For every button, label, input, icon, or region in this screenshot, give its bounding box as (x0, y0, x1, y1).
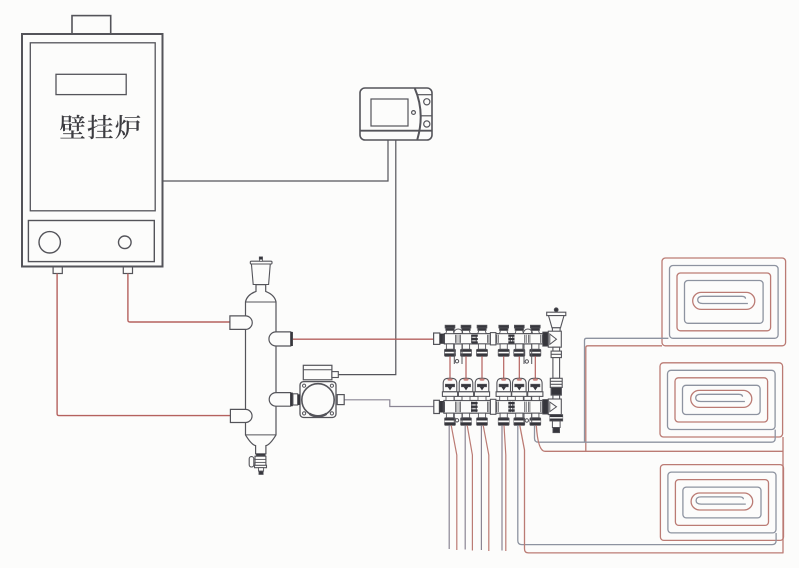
manifold supply coupler sleeve (490, 333, 496, 345)
separator air vent (top) (250, 257, 272, 285)
boiler knob (small circle) (119, 236, 132, 249)
coil 3 gray ring 1 (668, 472, 776, 533)
thermostat body (360, 88, 432, 140)
manifold supply valve 2 (459, 325, 473, 356)
bottom gray line manifold to coil 3 (518, 425, 776, 544)
boiler return stub (53, 267, 62, 274)
pump volute circle (302, 384, 334, 416)
flow meter 3 (474, 378, 489, 425)
bottom red line manifold to coil 3 (520, 425, 784, 553)
manifold supply left end cap (434, 333, 440, 344)
boiler pump knob (large circle) (39, 232, 60, 253)
manifold return bar (444, 401, 543, 414)
manifold supply valve 1 (443, 325, 457, 356)
separator upper-right port (269, 332, 291, 346)
flow meter 4 (496, 378, 511, 425)
thermostat button divider bottom (421, 115, 432, 117)
vent column drain stack (550, 415, 563, 433)
coil 3 red ring 2 (675, 480, 768, 526)
manifold bracket A (lower) (454, 397, 462, 424)
coil 1 inner gray hook (698, 296, 748, 303)
floor heating coil 3 outer red ring (660, 465, 783, 541)
boiler flue (72, 16, 111, 34)
spare circuit drop pipes (to unshown loops) (449, 425, 502, 550)
manifold supply valve 3 (475, 325, 489, 356)
thermostat button divider top (418, 94, 432, 96)
thermostat indicator dot (412, 111, 416, 115)
manifold bracket B (upper) (523, 329, 532, 364)
thermostat dial arc (415, 88, 421, 139)
coil 1 gray ring 2 (685, 281, 764, 324)
coil 2 gray ring 1 (668, 370, 776, 429)
manifold supply union nut 1 (472, 335, 478, 344)
coil 1 gray ring 1 (670, 266, 779, 339)
red right riser joining coils 2 and 3 (782, 437, 784, 553)
boiler inner panel (30, 43, 155, 211)
thermostat button lower (424, 121, 430, 127)
pipe boiler return from separator lower-left port (57, 274, 230, 416)
manifold return left end cap (434, 400, 440, 413)
floor heating coil 2 outer red ring (660, 363, 783, 437)
pipe boiler supply to separator upper-left port (128, 274, 230, 323)
coil 3 inner gray hook (696, 497, 746, 504)
pump terminal box (303, 365, 332, 380)
thermostat bottom strip line (360, 130, 432, 132)
pump outlet port (337, 395, 344, 405)
wire thermostat to pump (right stem down + run to pump terminal) (338, 140, 396, 375)
pipe pump outlet to lower manifold (344, 400, 434, 407)
return end tee from vent column (543, 400, 549, 415)
pump terminal connector (332, 372, 338, 378)
coil 2 inner gray hook (696, 394, 745, 401)
pump inlet coupling (293, 394, 298, 405)
pipe separator to heating manifold supply (293, 338, 434, 340)
supply end tee to vent column (543, 332, 549, 346)
trunk red line manifold to right riser (536, 425, 783, 451)
coil 1 red ring 2 (677, 273, 771, 331)
boiler supply stub (123, 267, 132, 274)
label 壁挂炉 (wall-hung boiler) (60, 115, 140, 140)
manifold bracket B (lower) (524, 397, 532, 424)
separator lower-right port (269, 393, 290, 407)
coil 1 gray return run (exit left, down riser) (585, 338, 669, 442)
coil 1 inner red capsule (693, 292, 755, 309)
vent column pipe upper (550, 347, 562, 399)
trunk gray line manifold to coil 2 (535, 425, 776, 442)
separator drain valve (bottom) (249, 454, 266, 475)
flow meter 1 (442, 378, 457, 425)
coil 3 inner red capsule (691, 493, 753, 510)
boiler bottom panel (28, 221, 154, 262)
manifold supply bar (444, 334, 543, 344)
pump bolts (303, 384, 334, 415)
boiler display window (56, 74, 126, 94)
thermostat screen (371, 99, 408, 126)
flow meter 2 (458, 378, 473, 425)
pump flange plate (300, 382, 336, 418)
coil 3 gray ring 2 (683, 487, 761, 518)
air separator funnel (auto air vent) (547, 308, 566, 333)
floor heating coil 1 outer red ring (662, 258, 786, 346)
manifold supply union nut 2 (508, 335, 514, 344)
coil 2 red ring 2 (675, 378, 768, 422)
flow meter 5 (512, 378, 527, 425)
manifold return coupler sleeve (490, 399, 496, 414)
coil 2 gray ring 2 (683, 385, 761, 414)
thermostat button upper (424, 99, 430, 105)
manifold supply valve 6 (528, 325, 542, 356)
manifold supply valve 5 (512, 325, 526, 356)
hydraulic separator body (246, 285, 277, 454)
manifold return union nut 1 (471, 402, 477, 412)
manifold return union nut 2 (508, 402, 514, 412)
flow meter 6 (528, 378, 543, 425)
boiler 壁挂炉 body (22, 34, 163, 267)
manifold supply valve 4 (497, 325, 511, 356)
spare circuit red drop pipes (451, 425, 506, 551)
coil 2 inner red capsule (691, 390, 752, 407)
wire thermostat to boiler (left stem + horizontal run) (163, 140, 389, 181)
separator lower-left port (230, 409, 252, 422)
red drop pipes manifold to flow meters (450, 356, 535, 379)
separator upper-left port (230, 316, 252, 330)
manifold bracket A (upper) (454, 329, 463, 364)
coil 1 red supply run (exit left, down riser) (586, 346, 662, 452)
